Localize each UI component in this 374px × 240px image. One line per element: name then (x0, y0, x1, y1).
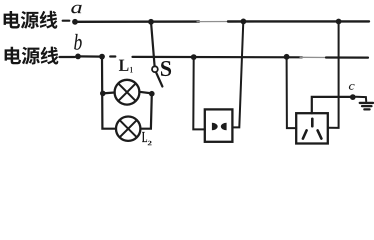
label a (71, 5, 81, 14)
label 电源线 (bottom power-line text) (5, 47, 21, 65)
socket hole left (D pad) (212, 123, 218, 130)
earth slot (311, 119, 314, 126)
label b (74, 34, 82, 50)
wire: lead dash to terminal b (60, 56, 75, 58)
junction dot a-line switch column (148, 19, 154, 25)
junction dot a-line right socket column (336, 19, 342, 25)
three-hole socket box (296, 113, 328, 143)
wire: live line a faded thin segment (197, 21, 229, 23)
wire: L1 row right (139, 92, 151, 94)
wire: neutral line b main segment (133, 56, 303, 59)
wire: lamp branch left vertical (102, 57, 116, 129)
junction dot b-line lamp branch (99, 54, 105, 60)
junction dot terminal a (72, 19, 78, 25)
label L2 (142, 132, 147, 142)
wire: middle socket right drop from a-line (232, 21, 243, 127)
wire: earth run from socket top to terminal c (312, 97, 350, 113)
label S (161, 61, 171, 76)
wire: lamp branch right vertical (141, 94, 152, 129)
junction dot a-line middle socket column (241, 19, 247, 25)
wire: neutral line b segment from terminal to lamp junction (78, 55, 102, 57)
wire: lead dash to terminal a (63, 20, 70, 22)
terminal dot c (350, 94, 356, 100)
lamp L2 (116, 117, 140, 141)
junction dot b-line right socket column (284, 54, 290, 60)
junction dot lamps-to-switch node (149, 91, 155, 97)
wire: neutral line b small dash (110, 55, 115, 57)
wire: live line a (top horizontal) (75, 20, 199, 23)
wire: c to ground stub (356, 97, 367, 102)
junction dot b-line middle socket column (191, 54, 197, 60)
live slot (slanted) (303, 130, 307, 138)
wire: right socket left drop from b-line (287, 57, 297, 128)
switch S pivot circle (152, 66, 158, 72)
wire: switch column from a-line (151, 22, 155, 66)
switch S blade (open) (156, 72, 162, 86)
wire: neutral line b faded thin segment (300, 56, 328, 58)
lamp L1 (115, 80, 140, 105)
label c (349, 84, 355, 90)
wire: live line a right part (228, 20, 369, 23)
label 电源线 (top power-line text) (4, 11, 20, 29)
label L1 (119, 60, 129, 71)
wire: L1 row left (103, 91, 115, 94)
ground symbol (360, 103, 373, 110)
wire: neutral line b right part (326, 56, 368, 58)
junction dot lamp branch L1 left (100, 91, 106, 97)
neutral slot (slanted) (318, 130, 322, 138)
two-hole socket box (205, 109, 233, 141)
socket hole right (D pad) (221, 123, 227, 130)
wire: middle socket left drop from b-line (193, 57, 205, 129)
wire: right socket right drop from a-line (328, 22, 339, 128)
junction dot terminal b (75, 54, 81, 60)
